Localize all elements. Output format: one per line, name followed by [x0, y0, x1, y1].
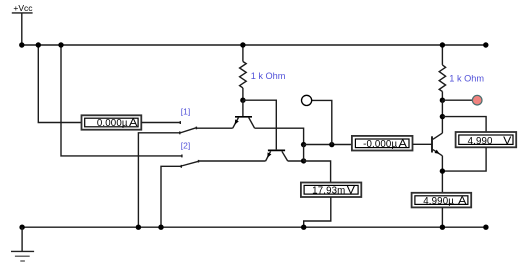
open connector circle — [302, 95, 312, 105]
ammeter A3 box — [412, 193, 472, 208]
node A junction dot (R1 bottom / Q1 base / Q2 base) — [240, 98, 245, 103]
svg-text:0.000µ: 0.000µ — [97, 118, 128, 129]
junction dot bottom rail J2 — [158, 225, 163, 230]
svg-text:A: A — [129, 117, 138, 129]
resistor R1 1k — [240, 45, 247, 100]
wire: node B vertical tie — [303, 145, 305, 161]
wire: V1 bottom to ground rail — [304, 197, 331, 227]
junction dot bottom rail ground — [19, 225, 24, 230]
junction dot R2 bottom / red probe — [440, 98, 445, 103]
node B junction dot upper — [301, 142, 306, 147]
end dot bottom rail right — [483, 225, 488, 230]
power symbol +Vcc — [12, 13, 33, 45]
switch J1 top contact tick — [179, 121, 181, 124]
svg-text:V: V — [503, 135, 512, 147]
wire: node B to ammeter A2 — [304, 144, 352, 146]
svg-text:A: A — [458, 195, 467, 207]
switch J2 bottom contact tick — [180, 165, 182, 168]
switch J1 lever — [180, 128, 197, 133]
svg-text:-0.000µ: -0.000µ — [363, 139, 397, 150]
wire: switch J1 bottom contact to ground rail — [138, 133, 179, 227]
wire: switch J2 pole to Q2 emitter — [199, 160, 266, 162]
red probe connector — [472, 95, 482, 105]
svg-text:A: A — [399, 138, 408, 150]
wire: V2 bottom to Q3 emitter node — [442, 147, 486, 171]
ammeter A2 box — [352, 136, 413, 151]
junction dot top rail A1 branch — [36, 42, 41, 47]
wire: branch up to open connector — [312, 100, 332, 144]
voltmeter V2 box — [456, 132, 517, 147]
ammeter A1 box — [82, 115, 142, 129]
wire: to red probe — [442, 99, 472, 101]
wire: R2 node down to Q3 collector — [441, 100, 443, 133]
wire: Q1 collector to node B — [255, 128, 304, 144]
junction dot at probe branch — [329, 142, 334, 147]
junction dot top rail R2 — [440, 42, 445, 47]
switch J1 pole tick — [195, 127, 197, 130]
svg-text:[1]: [1] — [181, 107, 190, 117]
wire: A1 output to switch J1 top contact — [141, 122, 180, 124]
junction dot top rail R1 — [240, 42, 245, 47]
svg-text:4.990µ: 4.990µ — [423, 196, 454, 207]
wire: Q3 emitter down to ammeter A3 — [441, 156, 443, 193]
junction dot bottom rail J1 — [136, 225, 141, 230]
wire: node A to Q1 base — [242, 100, 244, 117]
wire: Q2 collector to node B — [288, 160, 304, 162]
wire: collector node to voltmeter V2 — [442, 117, 486, 132]
svg-text:1 k Ohm: 1 k Ohm — [449, 74, 484, 84]
end dot top rail right — [483, 42, 488, 47]
wire: branch to switch J2 top contact — [61, 45, 182, 156]
transistor Q2 — [266, 150, 288, 161]
wire: top Vcc rail — [20, 44, 486, 46]
node B junction dot lower — [301, 158, 306, 163]
junction dot top rail J2 branch — [58, 42, 63, 47]
transistor Q3 — [432, 133, 442, 156]
svg-text:4.990: 4.990 — [468, 136, 493, 147]
switch J2 top contact tick — [181, 155, 183, 158]
junction dot Q3 emitter / V2 — [440, 168, 445, 173]
switch J2 pole tick — [198, 160, 200, 163]
wire: switch J1 pole to Q1 emitter — [196, 127, 232, 129]
junction dot top rail Vcc stem — [19, 42, 24, 47]
wire: branch to ammeter A1 — [38, 45, 81, 123]
wire: A2 to Q3 base — [413, 143, 432, 145]
transistor Q1 — [233, 117, 255, 128]
svg-text:17.93m: 17.93m — [312, 186, 345, 197]
svg-text:1 k Ohm: 1 k Ohm — [251, 71, 286, 81]
wire: bottom ground rail — [22, 226, 486, 228]
ground symbol — [11, 227, 34, 261]
junction dot bottom rail V1 — [301, 225, 306, 230]
switch J2 lever — [181, 161, 198, 166]
wire: node B down to voltmeter V1 — [304, 161, 331, 183]
resistor R2 1k — [439, 45, 445, 100]
svg-text:V: V — [347, 185, 356, 197]
switch J1 bottom contact tick — [179, 131, 181, 134]
junction dot Q3 collector node — [440, 114, 445, 119]
voltmeter V1 box — [301, 183, 361, 198]
wire: A3 to ground rail — [441, 207, 443, 227]
svg-text:+Vcc: +Vcc — [13, 3, 33, 13]
wire: node A to Q2 base — [243, 100, 276, 149]
junction dot bottom rail A3 — [440, 225, 445, 230]
svg-text:[2]: [2] — [181, 141, 190, 151]
switch J2 bottom contact with wire to ground rail — [161, 166, 181, 227]
